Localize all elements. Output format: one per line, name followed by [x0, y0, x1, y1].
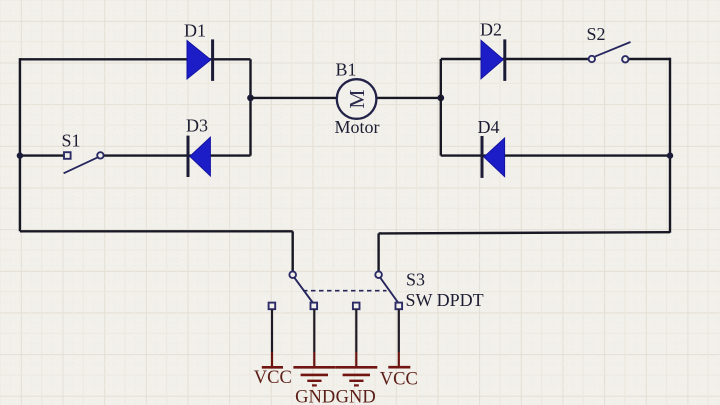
node motor tap left	[247, 95, 254, 102]
wire VCC left lead	[271, 309, 273, 367]
wire GND1 lead	[313, 309, 315, 367]
wire S1/D3 row right	[100, 154, 250, 156]
svg-text:M: M	[345, 89, 369, 108]
svg-text:D1: D1	[184, 21, 206, 41]
svg-text:GND: GND	[336, 387, 376, 405]
power port VCC right	[380, 367, 418, 389]
ground GND2	[335, 367, 377, 405]
svg-text:D3: D3	[186, 116, 208, 136]
svg-text:B1: B1	[336, 60, 357, 80]
wire GND2 lead	[355, 309, 357, 367]
svg-text:D4: D4	[478, 117, 500, 137]
wire left inner vertical	[249, 59, 251, 155]
switch S1	[64, 152, 104, 173]
wire top rail left	[20, 58, 251, 60]
svg-text:VCC: VCC	[254, 368, 292, 388]
svg-text:S2: S2	[587, 24, 606, 44]
svg-text:VCC: VCC	[380, 370, 418, 390]
diode D3	[188, 136, 210, 177]
node left rail junction	[17, 152, 23, 158]
diode D4	[482, 136, 505, 178]
wire right pole drop	[377, 233, 379, 271]
wire bottom rail right	[379, 232, 670, 233]
wire VCC right lead	[398, 309, 400, 367]
node right rail junction	[667, 152, 673, 158]
wire left outer vertical	[19, 58, 21, 231]
wire top rail right segment a	[441, 58, 589, 60]
wire top rail right segment b	[628, 58, 670, 60]
diode D1	[187, 39, 213, 81]
switch S3 DPDT	[269, 271, 403, 309]
wire left pole drop	[292, 231, 294, 271]
svg-text:GND: GND	[295, 387, 335, 405]
svg-text:S1: S1	[62, 131, 81, 151]
node motor tap right	[437, 95, 444, 102]
wire right outer vertical	[669, 58, 671, 233]
wire S1/D3 row left	[20, 154, 65, 156]
wire D4 row	[441, 154, 670, 156]
svg-text:Motor: Motor	[335, 117, 380, 137]
wire bottom rail left	[20, 230, 293, 232]
wire right inner vertical	[440, 59, 442, 156]
wire motor left	[251, 97, 338, 99]
power port VCC left	[254, 367, 292, 388]
svg-text:SW DPDT: SW DPDT	[406, 290, 484, 310]
svg-text:S3: S3	[406, 270, 425, 290]
ground GND1	[293, 367, 335, 405]
motor B1	[337, 79, 377, 119]
switch S2	[589, 42, 631, 63]
diode D2	[481, 39, 505, 81]
svg-text:D2: D2	[480, 20, 502, 40]
wire motor right	[377, 97, 441, 99]
